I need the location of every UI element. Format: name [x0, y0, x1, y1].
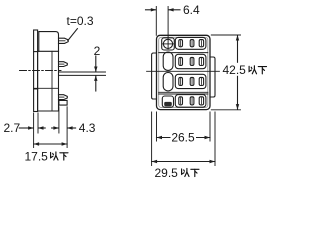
small slots row2 [179, 57, 204, 65]
group row4 [175, 95, 206, 108]
dim 6.4 line [146, 9, 156, 11]
terminal pin 1 (hook) [59, 62, 68, 67]
body inner vertical rib [51, 51, 53, 111]
dim 6.4 extension line right (through slot center) [167, 7, 169, 49]
mounting plate (t=0.3) left thin strip [34, 30, 38, 112]
small slots row3 [179, 77, 204, 85]
dim 2: vertical dimension line lower part [95, 76, 97, 91]
left flange [152, 53, 157, 99]
group row3 [175, 74, 206, 88]
42.5 arrows [236, 35, 239, 41]
plate joint tick upper [34, 51, 38, 53]
dim 42.5 extension bottom [211, 109, 240, 111]
outer body [157, 35, 211, 109]
oval slot row3 [163, 73, 173, 91]
plate joint tick lower [34, 88, 38, 90]
oval slot row2 [163, 52, 173, 70]
dim 6.4 extension line left [155, 7, 157, 36]
dim 26.5 line [157, 137, 211, 139]
svg-text:2.7: 2.7 [4, 121, 21, 135]
svg-text:29.5: 29.5 [155, 166, 179, 180]
body parting line lower [34, 87, 59, 89]
label 42.5以下 white backing [221, 63, 270, 76]
slot r1c1 (square with circle) [162, 38, 175, 50]
dim 29.5 line [152, 161, 215, 163]
slot r4c1 (rect with dark slot) [162, 96, 173, 107]
divider row1/row2 [159, 52, 208, 54]
svg-text:26.5: 26.5 [171, 130, 195, 144]
group row1 [175, 37, 206, 49]
small slots row4 [179, 97, 204, 105]
26.5 arrows [157, 136, 163, 139]
svg-text:t=0.3: t=0.3 [67, 14, 94, 28]
small slots row1 [179, 40, 204, 47]
dim 2.7 line [19, 127, 33, 129]
main body outline [38, 51, 59, 111]
right flange [210, 57, 215, 97]
dim 42.5 line [237, 36, 239, 110]
extension lines below plate [33, 113, 35, 148]
dim 29.5 extension lines [151, 112, 153, 166]
divider row3/row4 double line [159, 91, 208, 93]
dim 17.5 line [34, 143, 68, 145]
2 arrows [94, 67, 97, 73]
svg-text:17.5: 17.5 [25, 149, 49, 163]
4.3 arrows [53, 126, 59, 129]
dim 2: vertical dimension line upper part [95, 56, 97, 72]
svg-text:4.3: 4.3 [79, 121, 96, 135]
view centerline [147, 70, 220, 72]
svg-text:2: 2 [94, 44, 101, 58]
svg-text:42.5: 42.5 [223, 63, 247, 77]
6.4 arrows [151, 8, 157, 11]
svg-text:6.4: 6.4 [183, 3, 200, 17]
group row2 [175, 54, 206, 68]
29.5 arrows [152, 160, 158, 163]
terminal pin 3 (hook) [59, 95, 68, 100]
cap bottom parting line [38, 50, 59, 52]
label 26.5 white backing [171, 131, 197, 144]
leader line t=0.3 [68, 29, 78, 41]
centerline (dash-dot) [20, 70, 62, 72]
top tab (t=0.3 target) [59, 38, 69, 43]
terminal pin 2 (center) top edge + extension [59, 71, 106, 73]
dim 26.5 extension lines [156, 112, 158, 141]
inner rim [159, 37, 208, 107]
dim 4.3 line [52, 127, 59, 129]
dim 42.5 extension top [211, 34, 240, 36]
bottom terminal blade [59, 100, 67, 105]
2.7 arrows [28, 126, 34, 129]
17.5 arrows [34, 142, 40, 145]
extension lines below blade [58, 107, 60, 133]
terminal pin 2 bottom edge + extension [59, 74, 106, 76]
arrowheads [28, 8, 239, 163]
body top cap section [39, 32, 59, 52]
